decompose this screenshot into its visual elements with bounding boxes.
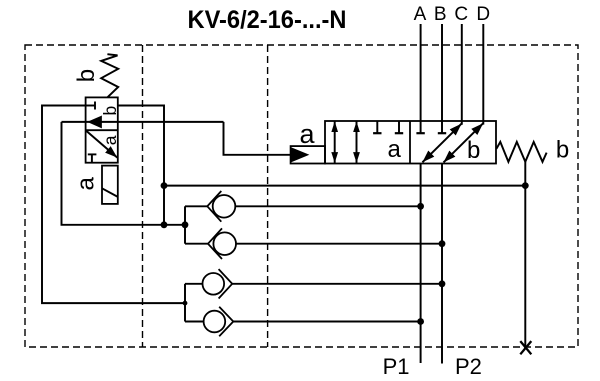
wire: pilot line down and to main valve pilot [224, 122, 293, 155]
main valve V2 position a: through arrow 1 [334, 121, 336, 162]
check valve group 1 bracket [184, 206, 186, 243]
junction dot [439, 240, 446, 247]
wire P2 vertical [441, 164, 443, 364]
wire line C vertical [461, 24, 463, 125]
main valve V2 spring [496, 142, 546, 162]
dashed enclosure border [25, 45, 578, 347]
wire line D vertical [482, 24, 484, 125]
svg-text:P1: P1 [383, 354, 410, 379]
main valve V2 divider [409, 121, 411, 164]
wire: V1 through-passage horizontal [62, 121, 224, 123]
junction dot [161, 182, 168, 189]
pilot valve V1 body [86, 97, 118, 162]
pilot valve V1 position b: blocked port T [86, 105, 95, 107]
main valve V2 position b: blocked T on B [438, 121, 446, 134]
main valve V2 pilot arrow [292, 149, 307, 161]
check valve CV2 [185, 228, 442, 259]
check valve CV4 [185, 307, 421, 336]
svg-text:a: a [100, 135, 120, 145]
wire: V1 top-left port to lower check pair [42, 106, 185, 304]
svg-text:B: B [434, 4, 447, 25]
pilot valve V1 spring (top) [101, 54, 118, 97]
junction dot [439, 280, 446, 287]
main valve V2 body [325, 121, 496, 164]
svg-text:A: A [414, 4, 427, 25]
main valve V2 position a: blocked T 1 [373, 121, 381, 134]
wire: drain line to spring vertical [164, 185, 525, 187]
main valve V2 position a: through arrow 2 [356, 121, 358, 162]
svg-text:b: b [73, 69, 100, 82]
pilot valve V1 position a: diagonal flow arrow [86, 130, 118, 157]
pilot valve V1 solenoid diagonal [102, 188, 118, 197]
svg-text:a: a [388, 136, 402, 163]
pilot valve V1 position a: blocked port T [91, 154, 93, 162]
junction dot [417, 203, 424, 210]
svg-text:a: a [73, 176, 100, 190]
check valve CV1 [185, 191, 421, 222]
main valve V2 position b: blocked T on A [416, 121, 424, 134]
svg-text:P2: P2 [455, 354, 482, 379]
main valve V2 pilot box [291, 146, 325, 163]
pilot valve V1 position b flow arrow (left) [90, 117, 101, 127]
wire line B vertical [441, 24, 443, 121]
junction dot [417, 318, 424, 325]
main valve V2 position b: diagonal arrow 1 [422, 124, 461, 163]
main valve V2 position a: blocked T 2 [395, 121, 403, 134]
check valve group 2 bracket [184, 284, 186, 322]
junction dot [182, 221, 189, 228]
junction dot [161, 221, 168, 228]
wire line A vertical [420, 24, 422, 121]
check valve CV3 [185, 269, 442, 298]
wire: left branch down to upper check pair [62, 122, 186, 225]
svg-text:D: D [476, 4, 490, 25]
svg-text:a: a [299, 119, 315, 149]
dashed divider line 2 [267, 45, 269, 347]
main valve V2 position b: diagonal arrow 2 [444, 123, 484, 162]
svg-text:b: b [467, 137, 480, 164]
svg-text:b: b [556, 137, 569, 164]
junction dot [522, 182, 529, 189]
pilot valve V1 divider [86, 129, 118, 131]
drain plug x mark [520, 341, 531, 354]
drain line vertical [524, 162, 526, 348]
wire P1 vertical [420, 164, 422, 364]
pilot valve V1 solenoid box [102, 166, 118, 204]
svg-text:KV-6/2-16-...-N: KV-6/2-16-...-N [188, 6, 347, 34]
svg-text:C: C [454, 4, 468, 25]
dashed divider line 1 [142, 45, 144, 347]
wire: V1 top-right port to node [118, 106, 164, 226]
svg-text:b: b [100, 106, 120, 116]
junction dot (small) [183, 301, 188, 306]
